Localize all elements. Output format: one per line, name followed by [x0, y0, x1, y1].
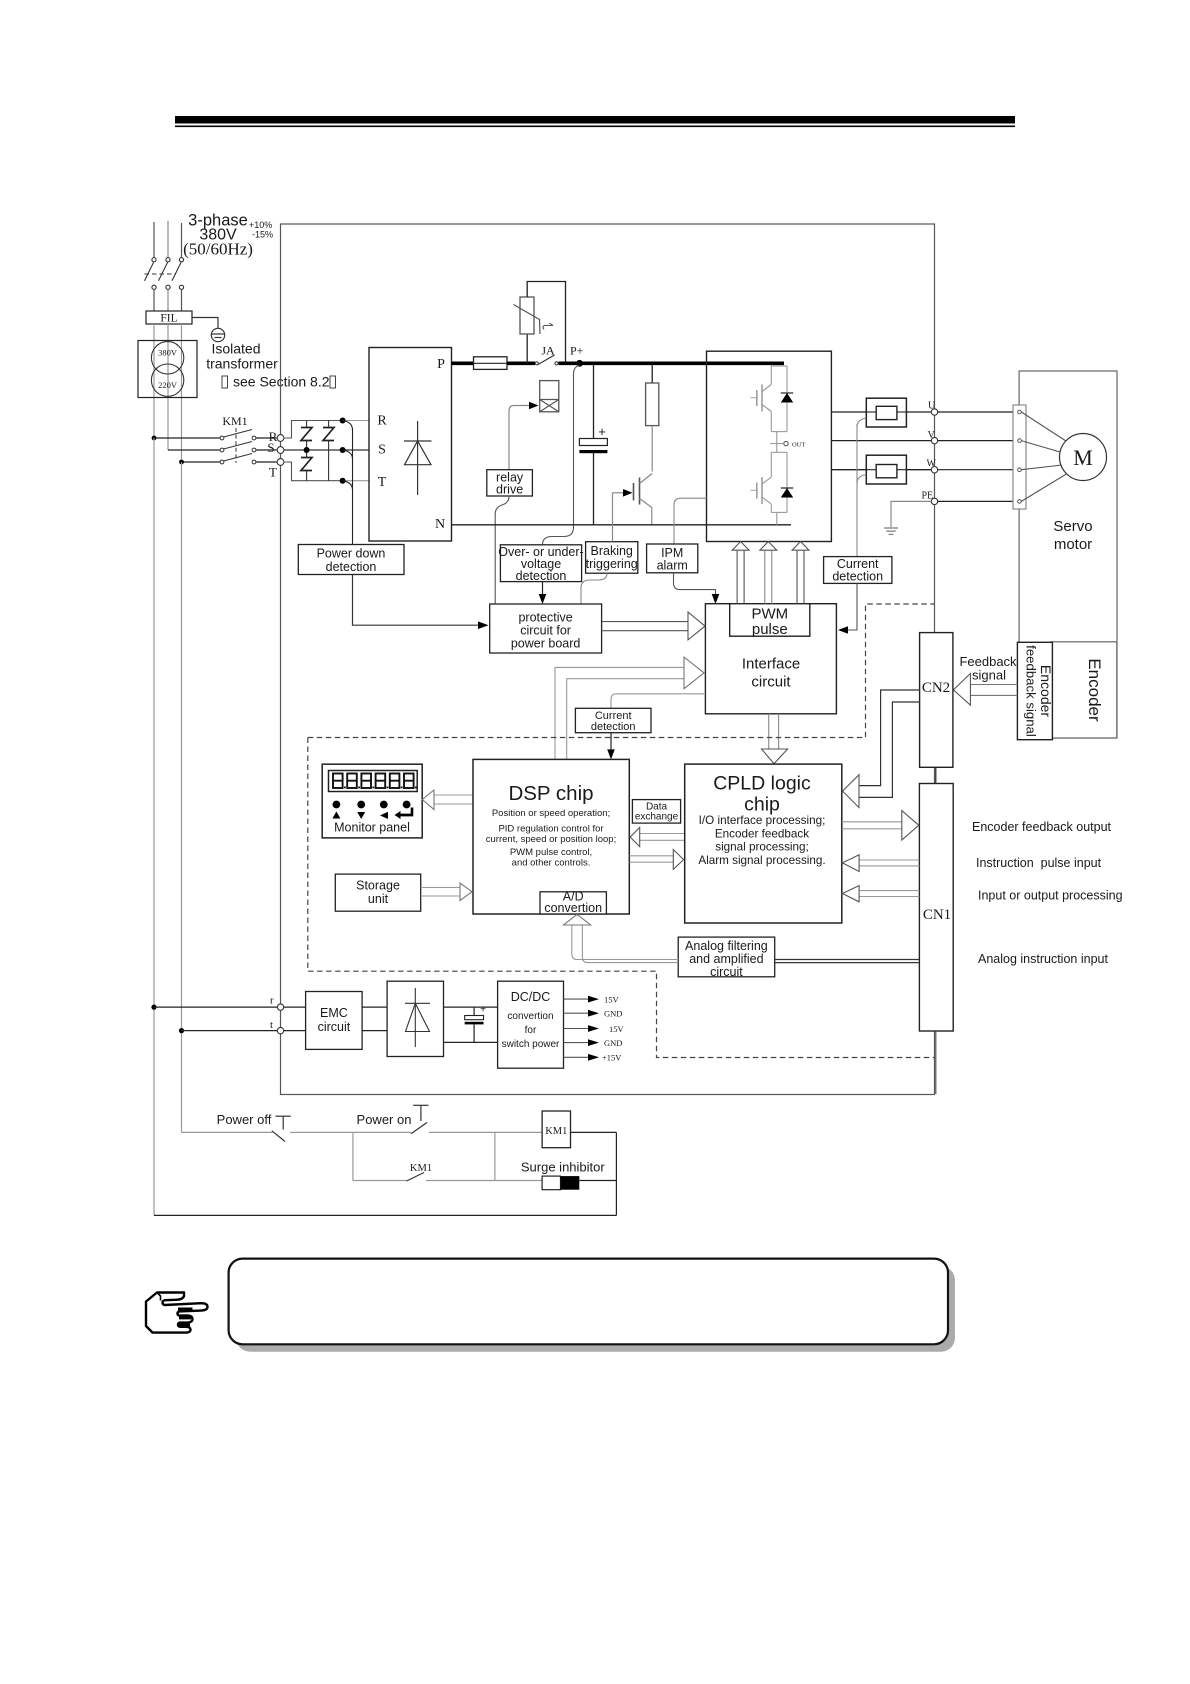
wire phase L1 to filter — [153, 289, 155, 311]
seal branch left — [352, 1132, 354, 1180]
svg-text:DSP chip: DSP chip — [508, 782, 593, 805]
box Current detection (power) — [824, 557, 892, 584]
terminal W — [927, 459, 938, 473]
breaker QF pole 2 — [159, 258, 171, 290]
svg-text:T: T — [269, 465, 277, 480]
fuse F1 — [474, 357, 508, 370]
soft-start resistor RS (slashed) — [514, 297, 554, 334]
svg-text:Braking: Braking — [591, 544, 633, 558]
svg-text:Servo: Servo — [1053, 518, 1092, 535]
rung1 wire to coil — [429, 1131, 542, 1133]
arrow PWM to IPM 2 — [760, 542, 777, 604]
svg-text:chip: chip — [744, 794, 780, 816]
wire CT sense to current detection — [857, 418, 866, 557]
svg-text:and other controls.: and other controls. — [512, 858, 591, 869]
wire IPM alarm to interface with arrow — [674, 573, 720, 604]
svg-text:KM1: KM1 — [410, 1163, 432, 1174]
svg-text:KM1: KM1 — [222, 414, 247, 428]
arrow CN1 to CPLD instruction pulse — [842, 855, 919, 872]
svg-text:circuit: circuit — [710, 965, 743, 979]
arrow protective to interface — [602, 612, 705, 640]
terminal S — [267, 440, 284, 455]
svg-text:convertion: convertion — [544, 901, 602, 915]
box PWM pulse — [730, 604, 810, 638]
wire U to motor terminal — [938, 411, 1013, 413]
diode D-upper freewheel — [771, 366, 793, 432]
node T tap — [340, 478, 346, 484]
arrow DSP to CPLD — [629, 850, 683, 870]
diode D-lower freewheel — [771, 452, 793, 525]
wire T terminal to surge network — [284, 462, 343, 481]
box Data exchange — [632, 800, 680, 824]
wire V phase output — [831, 440, 931, 442]
svg-text:Power down: Power down — [317, 547, 386, 561]
wire V to motor terminal — [938, 440, 1013, 442]
transistor Q-upper IGBT in IPM — [751, 365, 772, 432]
arrow interface to CPLD — [762, 714, 788, 764]
svg-text:15V: 15V — [609, 1024, 625, 1034]
svg-text:S: S — [378, 443, 386, 458]
svg-text:Power on: Power on — [357, 1112, 412, 1127]
node S tap — [340, 447, 346, 453]
svg-text:KM1: KM1 — [545, 1126, 567, 1137]
svg-text:Encoder feedback: Encoder feedback — [715, 828, 809, 841]
svg-text:detection: detection — [832, 570, 883, 584]
svg-text:detection: detection — [326, 560, 377, 574]
contact KM1 aux — [353, 1173, 542, 1182]
svg-text:OUT: OUT — [792, 442, 805, 449]
pushbutton Power off (NC) — [272, 1116, 291, 1141]
terminal PE — [922, 491, 938, 505]
svg-text:Surge inhibitor: Surge inhibitor — [521, 1160, 605, 1175]
wire surge network bottom rail to rectifier T — [343, 480, 369, 482]
capacitor C1 bus electrolytic — [579, 365, 607, 525]
svg-text:Monitor panel: Monitor panel — [334, 821, 410, 835]
callout note box with shadow — [229, 1259, 955, 1352]
current transformer CT1 on U — [866, 398, 906, 427]
wire N bus — [452, 524, 792, 526]
label Isolated transformer — [206, 341, 335, 390]
svg-text:current, speed or position loo: current, speed or position loop; — [486, 834, 616, 845]
svg-text:+15V: +15V — [602, 1053, 622, 1063]
breaker QF tie bar (dashed) — [145, 273, 177, 275]
drive outer enclosure box — [281, 224, 935, 1095]
svg-text:+: + — [480, 1005, 486, 1016]
wire phase R down to control supply — [153, 438, 155, 1215]
svg-text:triggering: triggering — [586, 557, 638, 571]
breaker QF pole 3 — [172, 258, 184, 290]
svg-text:S: S — [267, 440, 274, 455]
breaker QF pole 1 — [145, 258, 157, 290]
svg-text:220V: 220V — [158, 380, 178, 390]
current transformer CT2 on W — [866, 455, 906, 484]
wire sense line to power-down detection — [352, 428, 354, 545]
wire CN1 bottom stub — [935, 1031, 937, 1094]
label Servo motor — [1053, 518, 1092, 553]
svg-text:DC/DC: DC/DC — [511, 990, 551, 1004]
svg-text:Instruction pulse input: Instruction pulse input — [976, 856, 1102, 870]
svg-text:P+: P+ — [570, 344, 584, 358]
svg-text:power board: power board — [511, 637, 581, 651]
box IPM alarm — [647, 544, 698, 573]
svg-text:Input or output processing: Input or output processing — [978, 889, 1123, 903]
wire phase L2 top — [167, 221, 169, 258]
encoder feedback signal box — [1017, 642, 1054, 739]
svg-text:feedback signal: feedback signal — [1024, 645, 1039, 737]
svg-text:Storage: Storage — [356, 879, 400, 893]
pointing hand icon — [146, 1293, 208, 1333]
wire strip to motor leads — [1021, 412, 1068, 501]
monitor panel box — [322, 764, 422, 838]
box Current detection (mid) — [575, 708, 651, 733]
supply output GND 2 — [564, 1038, 623, 1048]
svg-text:for: for — [525, 1025, 537, 1036]
wire phase L3 to filter — [181, 289, 183, 311]
wire phase L1 top — [153, 222, 155, 258]
earth terminal symbol — [211, 328, 224, 341]
svg-text:and amplified: and amplified — [689, 952, 763, 966]
box DC/DC convertion for switch power — [498, 981, 564, 1068]
node r tap — [151, 1005, 156, 1010]
terminal V — [928, 430, 938, 444]
rectifier bridge REC1 box — [369, 348, 452, 542]
bottom return wire — [154, 1214, 616, 1216]
pushbutton Power on (NO) — [411, 1105, 429, 1133]
svg-text:Encoder: Encoder — [1085, 658, 1104, 722]
node OUT midpoint — [770, 432, 805, 453]
bypass branch left leg — [526, 334, 528, 363]
svg-text:switch power: switch power — [502, 1039, 560, 1050]
capacitor C2 filter — [465, 1005, 486, 1043]
diode symbol inside REC2 — [405, 988, 430, 1047]
rung1 wire mid — [290, 1131, 411, 1133]
svg-text:PWM: PWM — [751, 606, 788, 623]
contactor KM1 pole S — [168, 442, 277, 452]
svg-text:PWM pulse control,: PWM pulse control, — [510, 847, 592, 858]
wire sense tap S — [343, 450, 353, 459]
wire t into EMC — [284, 1030, 306, 1032]
filter FIL box — [146, 311, 192, 325]
node t tap — [179, 1028, 184, 1033]
braking resistor RB — [646, 365, 659, 472]
rectifier bridge REC2 box — [387, 981, 443, 1056]
arrow CPLD to DSP — [630, 828, 684, 847]
dashed control-board boundary — [308, 604, 935, 1058]
wire P bus fuse to JA contact — [507, 361, 535, 365]
supply output 15V — [564, 1024, 625, 1034]
wire W to motor terminal — [938, 469, 1013, 471]
transistor Q-lower IGBT in IPM — [751, 452, 788, 512]
connector CN1 — [919, 784, 953, 1032]
varistor Z1 leg (R-S, S-T) — [301, 421, 312, 481]
svg-text:see Section 8.2: see Section 8.2 — [233, 374, 330, 390]
node S tap on Z1 — [304, 447, 310, 453]
relay coil K (box with X) — [540, 381, 559, 412]
svg-text:Isolated: Isolated — [211, 341, 260, 357]
wire relay drive down to protective circuit — [495, 496, 509, 604]
seal branch right — [494, 1132, 496, 1180]
svg-text:T: T — [378, 475, 387, 490]
wire phase L3 top — [181, 223, 183, 258]
transistor Q2 braking IGBT — [634, 474, 653, 525]
IPM module box — [707, 351, 832, 541]
box DSP chip — [473, 759, 629, 914]
svg-text:Position or speed operation;: Position or speed operation; — [492, 808, 610, 819]
rung1 wire coil to right rail — [571, 1131, 617, 1133]
panel buttons — [332, 801, 413, 819]
svg-text:CPLD logic: CPLD logic — [713, 773, 811, 795]
wire sense tap T — [343, 481, 353, 490]
wire braking gate with arrow — [613, 489, 633, 497]
wire PE to motor terminal — [938, 500, 1013, 502]
bypass branch top rail — [527, 282, 565, 364]
label +10% -15% tolerance — [249, 220, 273, 240]
wire IPM fault output to IPM alarm box — [674, 498, 707, 544]
wire phase L2 to filter — [167, 289, 169, 311]
wire S terminal to rectifier — [284, 449, 369, 451]
svg-text:protective: protective — [518, 611, 572, 625]
svg-text:PID regulation control for: PID regulation control for — [498, 824, 603, 835]
wire P+ voltage sense down to OUV detection — [543, 365, 580, 545]
svg-text:convertion: convertion — [507, 1011, 553, 1022]
wire braking triggering up to gate — [612, 493, 614, 542]
terminal U — [928, 401, 938, 416]
wire PE to ground — [891, 501, 931, 527]
arrow DSP to monitor panel — [422, 790, 473, 810]
wire relay drive to coil with arrow — [509, 402, 539, 470]
svg-text:FIL: FIL — [160, 313, 177, 325]
wire braking triggering down to protective — [581, 573, 607, 604]
bus analog filtering to CN1 — [775, 960, 920, 963]
wire current detection to interface with arrow — [838, 583, 857, 633]
arrow PWM to IPM 3 — [792, 542, 809, 604]
surge inhibitor symbol — [521, 1160, 617, 1190]
svg-text:GND: GND — [604, 1038, 622, 1048]
svg-text:-15%: -15% — [252, 230, 273, 240]
svg-text:motor: motor — [1054, 536, 1092, 553]
svg-text:CN2: CN2 — [922, 680, 950, 696]
box Braking triggering — [586, 542, 638, 574]
terminal r — [270, 995, 284, 1011]
svg-text:transformer: transformer — [206, 356, 278, 372]
wire rectifier2 to DC/DC top — [444, 1006, 498, 1008]
wire W phase output — [831, 469, 931, 471]
svg-text:unit: unit — [368, 892, 389, 906]
wire P bus from rectifier to fuse — [452, 361, 474, 365]
wire current detection mid to DSP with arrow — [607, 733, 615, 760]
svg-text:Analog filtering: Analog filtering — [685, 939, 768, 953]
svg-text:signal processing;: signal processing; — [715, 841, 809, 854]
motor M circle — [1060, 434, 1107, 481]
wire OUV to protective with arrow — [539, 582, 547, 604]
motor terminal strip — [1013, 405, 1026, 509]
svg-text:Interface: Interface — [742, 656, 800, 673]
arrow CN2 to CPLD — [843, 690, 920, 808]
wire CN2 to CN1 stub — [935, 767, 937, 783]
svg-text:drive: drive — [496, 483, 523, 497]
svg-text:+: + — [598, 424, 606, 439]
svg-text:alarm: alarm — [657, 559, 688, 573]
svg-text:detection: detection — [516, 569, 567, 583]
wire phases through transformer — [154, 324, 182, 462]
svg-text:Analog instruction input: Analog instruction input — [978, 952, 1108, 966]
wire r to terminal — [154, 1006, 277, 1008]
right rail wire — [615, 1132, 617, 1215]
svg-text:(50/60Hz): (50/60Hz) — [183, 240, 253, 259]
svg-text:EMC: EMC — [320, 1006, 348, 1020]
encoder box — [1051, 642, 1117, 738]
relay drive box — [487, 470, 533, 497]
svg-text:Alarm signal processing.: Alarm signal processing. — [698, 854, 825, 867]
wire power-down to protective with arrow — [353, 575, 489, 630]
arrow PWM to IPM 1 — [732, 542, 749, 604]
svg-text:N: N — [435, 517, 445, 532]
ground symbol — [884, 528, 898, 534]
rung1 wire left — [182, 1131, 273, 1133]
contactor KM1 tie bar dashed — [235, 428, 237, 463]
wire phase T down to control supply — [181, 462, 183, 1132]
svg-text:380V: 380V — [158, 348, 178, 358]
box Over- or under- voltage detection — [498, 545, 583, 583]
box Storage unit — [335, 874, 420, 911]
svg-text:P: P — [437, 357, 445, 372]
svg-text:I/O interface processing;: I/O interface processing; — [699, 814, 826, 827]
isolated transformer T1 — [138, 341, 197, 398]
wire rectifier2 to DC/DC bottom — [444, 1041, 498, 1043]
box EMC circuit — [306, 992, 363, 1050]
svg-text:detection: detection — [591, 721, 636, 733]
box CPLD logic chip — [685, 764, 842, 923]
wire FIL to earth — [192, 318, 218, 329]
svg-text:+10%: +10% — [249, 220, 272, 230]
arrow feedback signal to CN2 — [953, 674, 1017, 706]
arrow analog filtering to A/D — [564, 915, 679, 963]
svg-text:Encoder: Encoder — [1038, 665, 1054, 717]
box A/D convertion — [540, 890, 606, 916]
svg-text:r: r — [270, 995, 274, 1007]
terminal t — [270, 1019, 284, 1034]
svg-text:exchange: exchange — [635, 812, 679, 823]
decimal points — [344, 787, 417, 789]
header double rule — [175, 116, 1015, 127]
wire sense tap R — [343, 421, 353, 431]
svg-text:circuit: circuit — [318, 1020, 351, 1034]
arrow CPLD to CN1 encoder feedback output — [842, 811, 919, 840]
supply output +5V — [564, 995, 620, 1005]
diode symbol inside REC1 — [404, 421, 432, 495]
wire t to terminal — [182, 1030, 278, 1032]
svg-text:circuit for: circuit for — [520, 624, 571, 638]
svg-text:circuit: circuit — [751, 674, 791, 691]
coil KM1 box — [542, 1111, 570, 1148]
node R tap — [340, 418, 346, 424]
svg-text:Encoder feedback output: Encoder feedback output — [972, 820, 1112, 834]
servo motor enclosure — [1019, 371, 1117, 738]
connector CN2 — [920, 633, 953, 768]
svg-text:M: M — [1073, 445, 1093, 470]
svg-text:CN1: CN1 — [923, 907, 951, 923]
svg-text:Power off: Power off — [217, 1112, 272, 1127]
svg-text:signal: signal — [972, 668, 1006, 683]
label Feedback signal — [959, 654, 1017, 683]
arrow DSP drive to interface — [555, 657, 704, 759]
arrow storage to DSP — [421, 883, 472, 901]
node P+ junction — [559, 360, 785, 367]
svg-text:t: t — [270, 1019, 273, 1031]
wire EMC to rectifier2 — [362, 1007, 387, 1031]
varistor Z2 leg (R-T) — [323, 421, 334, 481]
supply output GND 1 — [564, 1009, 623, 1019]
wire R terminal to surge network — [284, 421, 343, 439]
wire current detection mid to interface — [611, 694, 705, 709]
box Interface circuit — [705, 604, 836, 714]
wire surge network top rail to rectifier R — [343, 420, 369, 422]
svg-text:GND: GND — [604, 1009, 622, 1019]
terminal R — [269, 429, 284, 444]
contactor KM1 pole R — [152, 430, 277, 441]
box protective circuit for power board — [490, 604, 602, 653]
supply output +15V — [564, 1053, 623, 1063]
contactor KM1 pole T — [179, 454, 276, 465]
svg-text:15V: 15V — [604, 995, 620, 1005]
relay contact JA — [535, 355, 558, 365]
svg-text:R: R — [377, 414, 387, 429]
label 3-phase 380V (50/60Hz) — [183, 212, 253, 259]
svg-text:pulse: pulse — [752, 621, 788, 638]
box Analog filtering and amplified circuit — [678, 937, 775, 979]
wire r into EMC — [284, 1006, 306, 1008]
arrow CN1 to CPLD input-output — [842, 886, 919, 902]
terminal T — [269, 459, 284, 480]
box Power down detection — [298, 545, 404, 575]
seven-segment digits — [333, 774, 414, 789]
wire U phase output — [831, 411, 931, 413]
